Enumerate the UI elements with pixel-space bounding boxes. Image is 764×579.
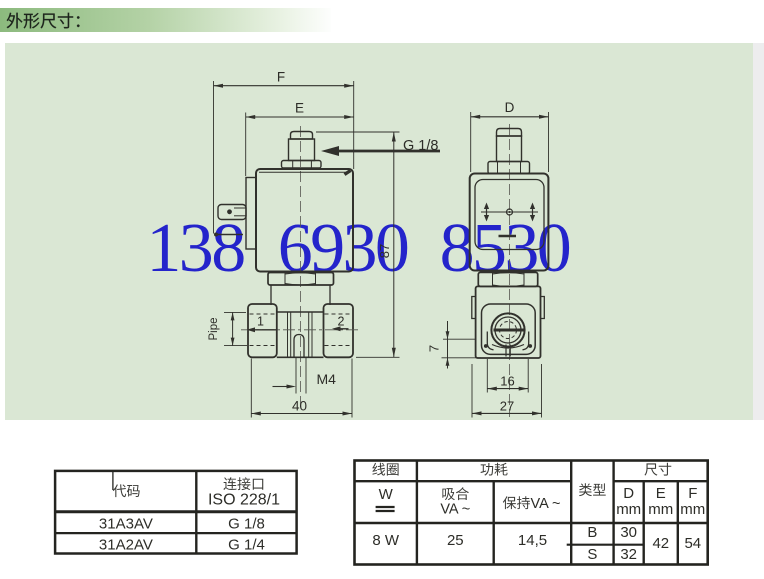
front view: thread dashed lines port 1 xyxy=(250,314,277,346)
svg-text:32: 32 xyxy=(620,546,637,563)
svg-text:31A3AV: 31A3AV xyxy=(99,516,153,533)
svg-text:27: 27 xyxy=(500,399,514,414)
dimension 87 vertical xyxy=(316,132,400,357)
svg-text:VA ~: VA ~ xyxy=(531,496,561,512)
dimension 27 xyxy=(472,364,542,418)
svg-text:E: E xyxy=(295,101,304,116)
side view: cap stem xyxy=(497,136,522,162)
side view: connector symbol right arrow xyxy=(530,203,535,222)
front view: M4 boss xyxy=(294,335,304,358)
right table: coil power dimensions grid xyxy=(355,461,708,565)
side view: screw slot xyxy=(494,329,525,332)
svg-text:2: 2 xyxy=(338,315,345,329)
svg-text:S: S xyxy=(587,546,597,563)
svg-text:VA ~: VA ~ xyxy=(440,502,470,518)
svg-text:87: 87 xyxy=(377,244,392,258)
front view: port block 2 xyxy=(324,304,354,357)
svg-text:30: 30 xyxy=(620,524,637,541)
svg-text:mm: mm xyxy=(648,501,673,518)
svg-text:D: D xyxy=(623,485,634,502)
side view: left clamp hook xyxy=(484,332,494,350)
drawing panel background xyxy=(5,43,753,420)
front view: center section of port body xyxy=(277,312,324,357)
side view: inner square face xyxy=(482,304,536,354)
side view: connector symbol center xyxy=(481,209,538,215)
right table W with DC symbol xyxy=(376,486,395,511)
side view: valve lower body xyxy=(476,286,541,358)
svg-text:Pipe: Pipe xyxy=(208,317,220,340)
front view: terminal tab upper xyxy=(218,205,246,220)
front view: neck below nut xyxy=(271,285,330,305)
svg-text:G 1/8: G 1/8 xyxy=(228,516,265,533)
dimension Pipe xyxy=(208,312,247,345)
svg-text:8 W: 8 W xyxy=(372,532,400,549)
svg-text:31A2AV: 31A2AV xyxy=(99,537,153,554)
dimension 7 xyxy=(427,321,482,369)
front view: vertical centerline xyxy=(300,126,302,411)
right table header 功耗 xyxy=(481,463,508,476)
side view: port circle inner xyxy=(495,317,521,343)
front view: thread dashed lines port 2 xyxy=(325,314,353,346)
side view: top cap dome xyxy=(497,129,522,137)
front view: hex nut xyxy=(268,273,334,286)
svg-text:16: 16 xyxy=(500,374,514,389)
front view: washer flange xyxy=(282,161,322,169)
svg-text:E: E xyxy=(656,485,666,502)
side view: vertical centerline xyxy=(509,124,511,417)
left table header 连接口 ISO 228/1 xyxy=(223,477,263,490)
right table header 类型 xyxy=(579,483,606,496)
svg-text:14,5: 14,5 xyxy=(518,532,547,549)
port label 2 with flow arrow xyxy=(332,315,349,332)
front view: coil body xyxy=(256,169,353,272)
svg-text:G 1/8: G 1/8 xyxy=(403,138,438,154)
dimension D xyxy=(471,100,549,172)
right table header 尺寸 xyxy=(644,463,671,476)
svg-text:B: B xyxy=(587,524,597,541)
front view: top cap dome xyxy=(291,132,313,140)
side view: port circle innermost dashed xyxy=(500,322,517,339)
right table F mm xyxy=(680,485,705,518)
header bar 外形尺寸 xyxy=(0,8,331,32)
svg-text:138: 138 xyxy=(146,210,244,287)
side view: connector symbol left arrow xyxy=(484,203,489,222)
svg-text:7: 7 xyxy=(427,345,442,352)
watermark phone number xyxy=(146,210,569,287)
left table: code vs connection xyxy=(55,471,297,554)
dimension 16 xyxy=(487,359,528,393)
svg-text:1: 1 xyxy=(257,315,264,329)
svg-text:G 1/4: G 1/4 xyxy=(228,537,265,554)
svg-text:F: F xyxy=(277,70,285,85)
side view: coil body inner face xyxy=(475,180,544,250)
right table header 线圈 xyxy=(372,463,398,476)
front view: port block 1 xyxy=(248,304,277,357)
svg-text:M4: M4 xyxy=(317,371,337,387)
dimension 40 xyxy=(251,359,352,418)
svg-text:mm: mm xyxy=(616,501,641,518)
left table row 31A2AV xyxy=(99,537,265,554)
svg-text:25: 25 xyxy=(447,532,464,549)
side view: left mounting tab xyxy=(472,297,476,319)
front view: terminal tab lower xyxy=(214,233,243,237)
svg-text:40: 40 xyxy=(292,399,307,414)
svg-text:D: D xyxy=(505,100,515,115)
side view: port circle outer xyxy=(491,313,524,346)
G 1/8 port callout arrow xyxy=(321,138,440,156)
dimension F xyxy=(214,70,354,234)
svg-text:ISO 228/1: ISO 228/1 xyxy=(208,492,280,509)
port label 1 with flow arrow xyxy=(247,315,278,333)
side view: right mounting tab xyxy=(541,297,545,319)
right table 保持VA~ xyxy=(503,496,530,509)
side view: polarity dash xyxy=(499,235,517,238)
svg-text:F: F xyxy=(688,485,697,502)
right table 吸合 VA~ xyxy=(442,487,468,500)
dimension E xyxy=(246,101,354,177)
side view: washer flange xyxy=(488,162,530,174)
right table E mm xyxy=(648,485,673,518)
side view: right clamp hook xyxy=(523,332,533,350)
left table header 代码 xyxy=(113,484,140,497)
side view: center stem below port xyxy=(506,345,510,357)
right table D mm xyxy=(616,485,641,518)
left table row 31A3AV xyxy=(99,516,265,533)
side view: coil body outer xyxy=(470,174,549,271)
svg-text:W: W xyxy=(379,486,394,503)
svg-text:mm: mm xyxy=(680,501,705,518)
side view: clamp bottom arc xyxy=(492,345,524,349)
svg-text:54: 54 xyxy=(684,535,701,552)
side view: hex nut xyxy=(478,272,537,286)
front view: connector housing xyxy=(246,178,256,250)
svg-text:42: 42 xyxy=(652,535,669,552)
front view: cap stem xyxy=(289,139,315,161)
front view: horizontal centerline of ports xyxy=(241,329,360,331)
dimension M4 xyxy=(273,358,337,394)
svg-text:8530: 8530 xyxy=(440,210,570,287)
right table row values xyxy=(372,524,701,563)
